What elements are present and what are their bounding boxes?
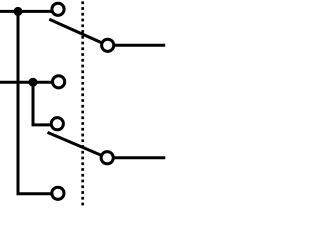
wire: pole 1 output to right [114,44,165,47]
wire: bus elbow to bottom throw contact [17,192,52,195]
junction: net A [14,7,23,16]
contact: throw 1 of pole 2 (net B) [51,118,63,130]
wire: net B elbow to throw 1 of pole 2 [32,123,52,126]
wire: pole 2 output to right [113,156,165,159]
contact: throw 2 of pole 1 (net B) [53,76,65,88]
wire: net B vertical drop [32,82,35,125]
blade: pole 2 switch arm [48,132,101,155]
two-pole ganged changeover (crossover) switch schematic [0,0,170,211]
contact: throw 1 of pole 1 (net A) [52,3,64,15]
wire: left vertical bus (net A) [17,11,20,193]
blade: pole 1 switch arm [49,19,101,42]
junction: net B [29,78,38,87]
contact: throw 2 of pole 2 (net A) [52,187,64,199]
mechanical link (ganged actuator, dotted line) [81,1,84,206]
pole: pole 2 common contact [101,152,113,164]
wire: net B input from left edge [0,81,53,84]
wire: net A input from left edge [0,10,53,13]
pole: pole 1 common contact [102,39,114,51]
